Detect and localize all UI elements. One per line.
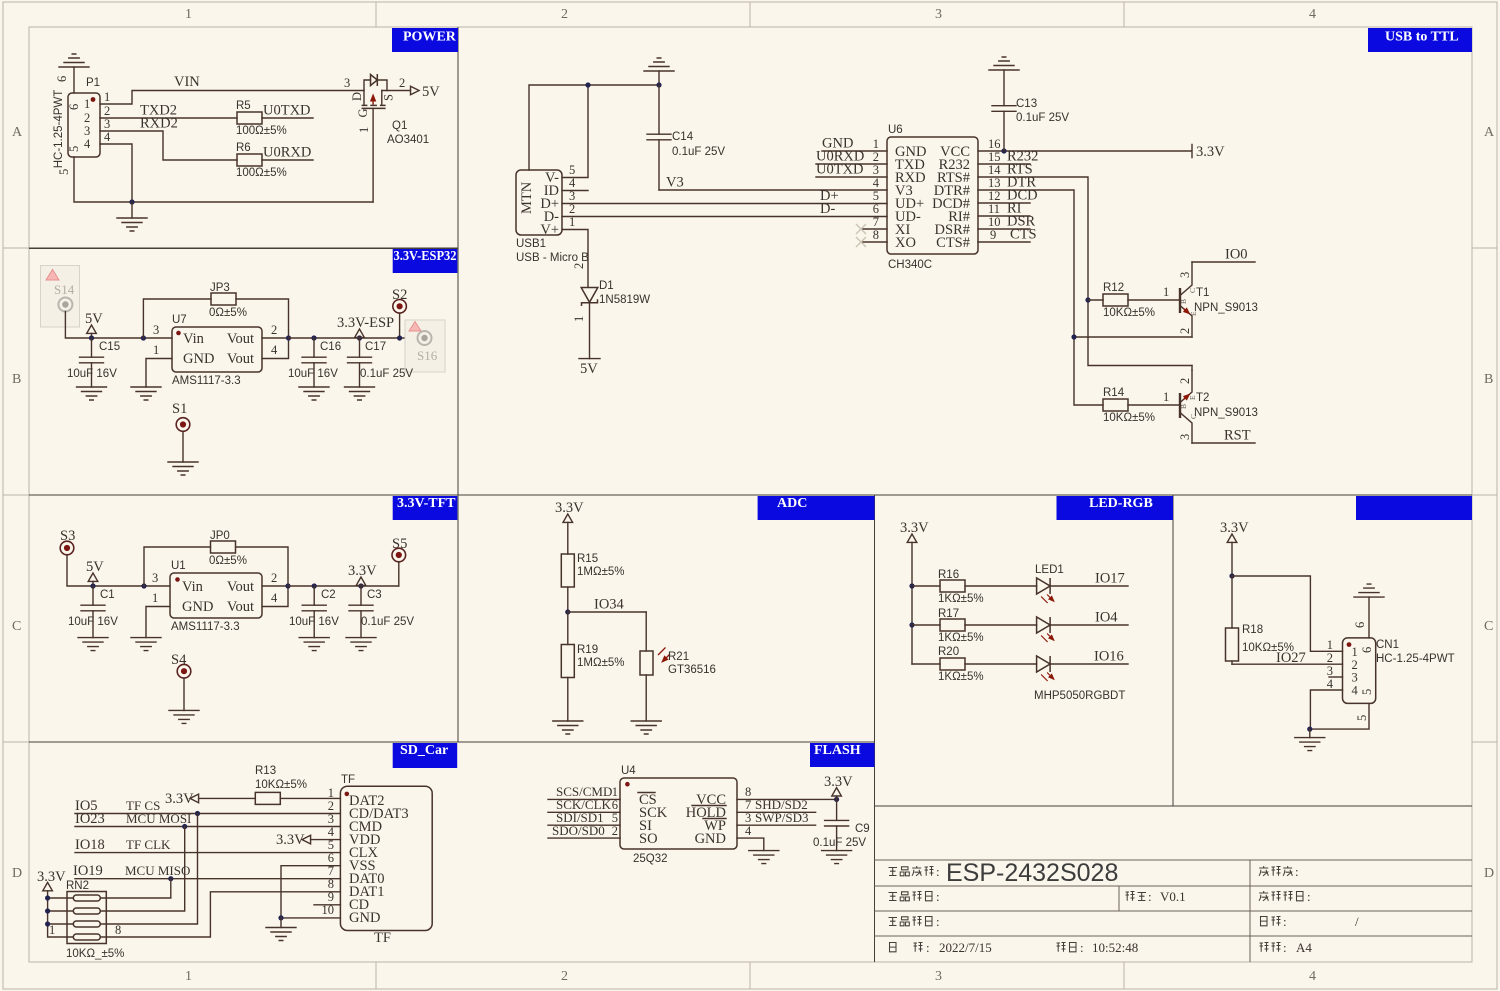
svg-text:T2: T2	[1196, 392, 1209, 404]
capacitor C17	[357, 335, 362, 340]
svg-text:S2: S2	[392, 287, 407, 303]
svg-text:3: 3	[152, 571, 158, 585]
svg-text:U1: U1	[171, 560, 186, 572]
svg-text:R19: R19	[577, 644, 598, 656]
svg-text:R16: R16	[938, 569, 959, 581]
svg-text:10KΩ_±5%: 10KΩ_±5%	[66, 948, 124, 960]
svg-text:6: 6	[55, 76, 69, 82]
svg-text:2: 2	[1178, 328, 1192, 334]
svg-text:U0TXD: U0TXD	[263, 103, 311, 119]
wire V+ down to diode	[562, 230, 588, 288]
capacitor C13	[1003, 111, 1005, 151]
svg-text:0.1uF 25V: 0.1uF 25V	[672, 146, 725, 158]
svg-text:SD_Car: SD_Car	[400, 743, 448, 758]
svg-text:2: 2	[572, 263, 586, 269]
svg-text:1: 1	[328, 786, 334, 800]
svg-text::: :	[936, 889, 940, 904]
capacitor C9	[836, 799, 838, 820]
capacitor C14	[658, 85, 660, 134]
svg-text:3.3V: 3.3V	[900, 520, 929, 536]
svg-text:4: 4	[271, 591, 278, 605]
wire pin1 to VIN	[100, 91, 363, 105]
wire node CTS	[978, 241, 1030, 243]
svg-text:10KΩ±5%: 10KΩ±5%	[1103, 307, 1155, 319]
svg-text:5V: 5V	[86, 559, 104, 575]
svg-text:1KΩ±5%: 1KΩ±5%	[938, 632, 984, 644]
svg-text:R6: R6	[236, 142, 251, 154]
svg-text:10KΩ±5%: 10KΩ±5%	[1103, 412, 1155, 424]
svg-text:V+: V+	[540, 222, 559, 238]
svg-text:Vout: Vout	[227, 331, 254, 347]
svg-text:1: 1	[1327, 638, 1333, 652]
wire node IO34	[568, 611, 646, 613]
pin9 CD stub	[314, 904, 340, 906]
wire 3.3V to CN1 pin1	[1232, 576, 1343, 651]
svg-text:5: 5	[57, 169, 71, 175]
svg-text:3.3V: 3.3V	[824, 774, 853, 790]
svg-text:1MΩ±5%: 1MΩ±5%	[577, 657, 625, 669]
frame column ticks	[376, 2, 1124, 989]
svg-text:IO23: IO23	[75, 811, 105, 827]
svg-text:1: 1	[185, 7, 192, 22]
svg-text:5: 5	[612, 811, 618, 825]
section title bars	[392, 28, 1472, 768]
transistor T1 NPN_S9013	[1179, 288, 1181, 313]
svg-text:Q1: Q1	[392, 120, 407, 132]
svg-text:B: B	[12, 372, 21, 387]
svg-text:1: 1	[153, 343, 159, 357]
svg-text:AMS1117-3.3: AMS1117-3.3	[172, 375, 241, 387]
wire node R232	[978, 163, 1030, 165]
wire pin6 stem	[73, 67, 75, 93]
resistor R15	[561, 554, 574, 587]
svg-text:3.3V: 3.3V	[348, 563, 377, 579]
svg-text:P1: P1	[86, 77, 100, 89]
svg-text:12: 12	[988, 189, 1001, 203]
svg-text:C15: C15	[99, 341, 120, 353]
svg-text:2: 2	[84, 111, 90, 125]
resistor R12	[1103, 294, 1128, 306]
svg-text:10:52:48: 10:52:48	[1092, 940, 1138, 955]
row3: product no / page	[889, 914, 940, 929]
wire GND pin4 to ground	[737, 838, 764, 851]
connector TF	[340, 786, 432, 930]
svg-text:CH340C: CH340C	[888, 259, 932, 271]
LED blue el	[1037, 656, 1054, 681]
svg-text:IO27: IO27	[1276, 650, 1306, 666]
wire VCC pin16 to 3.3V bar	[978, 145, 1192, 158]
svg-text::: :	[1295, 864, 1299, 879]
row2: model / version / file no	[889, 889, 940, 904]
svg-text:1: 1	[1352, 645, 1358, 659]
svg-text:3: 3	[84, 124, 90, 138]
wire node RI	[978, 215, 1030, 217]
resistor R17	[909, 622, 914, 627]
wire node SCS/CMD	[548, 798, 620, 800]
svg-text:13: 13	[988, 176, 1001, 190]
svg-text:3: 3	[873, 163, 879, 177]
svg-text:1KΩ±5%: 1KΩ±5%	[938, 593, 984, 605]
capacitor C3	[358, 583, 363, 588]
wire node SHD/SD2	[737, 811, 816, 813]
svg-text:1: 1	[873, 137, 879, 151]
svg-text:3: 3	[935, 969, 942, 984]
regulator U1 AMS1117-3.3	[170, 573, 262, 618]
svg-text:USB1: USB1	[516, 238, 546, 250]
svg-text:GND: GND	[695, 831, 726, 847]
svg-text:U4: U4	[621, 765, 636, 777]
row1: product name	[889, 864, 940, 879]
svg-text:6: 6	[1360, 647, 1374, 653]
svg-text:D: D	[1484, 866, 1494, 881]
node 5V out arrow	[411, 86, 420, 95]
wire pin5 V- up	[562, 85, 588, 178]
svg-text:U6: U6	[888, 124, 903, 136]
svg-text:0.1uF 25V: 0.1uF 25V	[360, 368, 413, 380]
svg-text:4: 4	[873, 176, 880, 190]
wire node RTS down	[978, 177, 1192, 366]
diode D1 1N5819W	[581, 288, 598, 307]
svg-text:3: 3	[1178, 434, 1192, 440]
svg-text:IO34: IO34	[594, 597, 625, 613]
svg-text:2: 2	[271, 323, 277, 337]
svg-text:JP3: JP3	[210, 282, 230, 294]
svg-text:S16: S16	[417, 348, 438, 363]
capacitor C16	[311, 335, 316, 340]
wire D-	[562, 216, 887, 218]
svg-text:IO4: IO4	[1095, 610, 1118, 626]
svg-text:G: G	[356, 108, 370, 117]
wire node IO5 / TF CS	[75, 813, 340, 815]
svg-text:4: 4	[1309, 7, 1316, 22]
svg-text:3: 3	[153, 323, 159, 337]
svg-text:3: 3	[1352, 671, 1358, 685]
svg-text:IO16: IO16	[1094, 649, 1124, 665]
svg-text:IO0: IO0	[1225, 247, 1248, 263]
svg-text::: :	[936, 914, 940, 929]
wire pin2 TXD2	[100, 117, 237, 119]
svg-text:1: 1	[612, 785, 618, 799]
svg-text:2: 2	[104, 104, 110, 118]
junction	[129, 199, 134, 204]
svg-text:3.3V: 3.3V	[276, 832, 305, 848]
svg-text:LED-RGB: LED-RGB	[1089, 496, 1153, 511]
connector CN1	[1343, 638, 1376, 704]
svg-text:10uF 16V: 10uF 16V	[67, 368, 117, 380]
capacitor C1	[92, 586, 94, 605]
svg-text:7: 7	[873, 215, 879, 229]
ground bottom	[131, 202, 133, 218]
svg-text:11: 11	[988, 202, 1000, 216]
svg-text:U0RXD: U0RXD	[263, 145, 311, 161]
svg-text:8: 8	[115, 923, 121, 937]
svg-text:C17: C17	[365, 341, 386, 353]
svg-text:GND: GND	[349, 910, 380, 926]
svg-text:4: 4	[1309, 969, 1316, 984]
wire node U0RXD	[262, 159, 313, 161]
svg-text:3: 3	[344, 76, 350, 90]
wire node DTR down	[978, 190, 1103, 405]
svg-text:8: 8	[745, 785, 751, 799]
svg-text:0Ω±5%: 0Ω±5%	[209, 555, 247, 567]
svg-text:Vin: Vin	[182, 579, 204, 595]
wire U7 outputs	[262, 338, 289, 359]
svg-text:2: 2	[612, 824, 618, 838]
svg-text:A: A	[1484, 125, 1495, 140]
ground above C13	[989, 57, 1019, 70]
svg-text:1: 1	[152, 591, 158, 605]
svg-text:HC-1.25-4PWT: HC-1.25-4PWT	[1376, 653, 1455, 665]
wire D+	[562, 203, 887, 205]
svg-text:1: 1	[104, 90, 110, 104]
svg-text:2: 2	[399, 76, 405, 90]
marker S14 overlay	[41, 266, 80, 328]
svg-text:4: 4	[745, 824, 752, 838]
svg-text:3: 3	[104, 117, 110, 131]
svg-text:1: 1	[49, 923, 55, 937]
svg-text:AMS1117-3.3: AMS1117-3.3	[171, 621, 240, 633]
svg-text:16: 16	[988, 137, 1001, 151]
IC U4 25Q32	[620, 778, 737, 849]
svg-text:Vout: Vout	[227, 351, 254, 367]
resistor R5	[237, 112, 262, 124]
svg-text:5: 5	[1355, 715, 1369, 721]
svg-text:2: 2	[561, 7, 568, 22]
svg-text:3.3V-ESP32: 3.3V-ESP32	[394, 249, 457, 264]
svg-text:XO: XO	[895, 235, 916, 251]
wire pin5 stem + bottom rail	[74, 157, 373, 202]
svg-text:GT36516: GT36516	[668, 664, 716, 676]
svg-text:S: S	[382, 94, 396, 101]
power bar 5V	[589, 303, 591, 359]
svg-text:FLASH: FLASH	[814, 743, 861, 758]
svg-text:1: 1	[84, 97, 90, 111]
wire pin3 RXD2	[100, 131, 237, 160]
wire VSS + GND to ground	[281, 866, 340, 918]
svg-text:/: /	[1355, 914, 1359, 929]
svg-text:25Q32: 25Q32	[633, 853, 668, 865]
svg-text:2: 2	[561, 969, 568, 984]
LED green el	[1037, 617, 1054, 642]
svg-text:3.3V: 3.3V	[1196, 144, 1225, 160]
svg-text:U0TXD: U0TXD	[816, 162, 864, 178]
connector USB1	[516, 170, 562, 235]
pin8 XO stub with nc cross	[861, 241, 887, 243]
svg-text::: :	[1307, 889, 1311, 904]
pin4 to ground	[1310, 690, 1342, 729]
svg-text:3.3V: 3.3V	[37, 869, 66, 885]
svg-text:JP0: JP0	[210, 530, 230, 542]
svg-text:4: 4	[1327, 677, 1334, 691]
svg-text:GND: GND	[182, 599, 213, 615]
svg-text:0.1uF 25V: 0.1uF 25V	[361, 616, 414, 628]
svg-text:MCU MOSI: MCU MOSI	[126, 811, 191, 826]
wire node V3 to U6 pin4	[659, 189, 887, 191]
ground	[77, 387, 107, 400]
svg-text:MTN: MTN	[519, 181, 535, 214]
svg-text:RN2: RN2	[66, 880, 89, 892]
svg-text:3: 3	[745, 811, 751, 825]
svg-text:R14: R14	[1103, 387, 1125, 399]
svg-text:MCU MISO: MCU MISO	[125, 863, 190, 878]
svg-text:6: 6	[67, 104, 81, 110]
svg-text:C9: C9	[855, 823, 870, 835]
ground top	[658, 71, 660, 85]
svg-text:RST: RST	[1224, 428, 1251, 444]
svg-text:0.1uF 25V: 0.1uF 25V	[1016, 112, 1069, 124]
svg-text:A: A	[12, 125, 23, 140]
svg-text:IO19: IO19	[73, 863, 103, 879]
pin5 wire bottom	[1310, 703, 1369, 729]
svg-text:C3: C3	[367, 589, 382, 601]
svg-text:100Ω±5%: 100Ω±5%	[236, 125, 287, 137]
svg-text:3.3V-TFT: 3.3V-TFT	[397, 496, 456, 511]
svg-text:3.3V: 3.3V	[1220, 520, 1249, 536]
svg-text:S14: S14	[54, 282, 75, 297]
svg-text:CN1: CN1	[1376, 639, 1399, 651]
marker S16 overlay	[405, 320, 445, 372]
svg-text:CTS#: CTS#	[936, 235, 970, 251]
resistor R19	[567, 612, 569, 645]
svg-text:10uF 16V: 10uF 16V	[289, 616, 339, 628]
connector P1	[68, 93, 100, 157]
svg-text:D: D	[350, 92, 364, 101]
wire T1 collector IO0	[1192, 261, 1255, 263]
wire GND pin1	[822, 150, 887, 152]
wire node SDO/SD0	[548, 837, 620, 839]
svg-text:1: 1	[1163, 285, 1169, 299]
svg-text:2022/7/15: 2022/7/15	[939, 940, 992, 955]
svg-text:4: 4	[1352, 684, 1359, 698]
capacitor C2	[312, 583, 317, 588]
svg-text:C2: C2	[321, 589, 336, 601]
wire T1 emitter to DTR	[1074, 336, 1192, 338]
svg-text:Vin: Vin	[183, 331, 205, 347]
svg-text:SDO/SD0: SDO/SD0	[552, 823, 605, 838]
jumper JP0	[141, 583, 146, 588]
wire node SCK/CLK	[548, 811, 620, 813]
svg-text:Vout: Vout	[227, 579, 254, 595]
svg-text:AO3401: AO3401	[387, 134, 429, 146]
svg-text::: :	[1283, 914, 1287, 929]
svg-text:1N5819W: 1N5819W	[599, 294, 650, 306]
svg-text:S1: S1	[172, 401, 187, 417]
svg-text:SO: SO	[639, 831, 658, 847]
svg-text::: :	[926, 940, 930, 955]
svg-text:1: 1	[185, 969, 192, 984]
wire node IO23 / MCU MOSI	[75, 826, 340, 828]
wire node DCD	[978, 202, 1030, 204]
svg-text:9: 9	[990, 228, 996, 242]
svg-text:NPN_S9013: NPN_S9013	[1194, 407, 1258, 419]
svg-text:U7: U7	[172, 314, 187, 326]
svg-text:C: C	[1484, 619, 1493, 634]
svg-text::: :	[936, 864, 940, 879]
svg-text:4: 4	[271, 343, 278, 357]
svg-text:5: 5	[67, 146, 81, 152]
svg-text:6: 6	[873, 202, 879, 216]
wire DAT1 to RN2	[100, 892, 340, 937]
svg-text:TF: TF	[341, 774, 355, 786]
wire node DSR	[978, 228, 1030, 230]
svg-text:RXD2: RXD2	[140, 116, 178, 132]
wire node SWP/SD3	[737, 824, 816, 826]
wire T2 emitter RST	[1192, 442, 1255, 444]
row4: date / time / paper	[890, 940, 992, 955]
svg-text:2: 2	[873, 150, 879, 164]
svg-text:R15: R15	[577, 553, 598, 565]
svg-text:VIN: VIN	[174, 74, 200, 90]
svg-text:5V: 5V	[580, 361, 598, 377]
svg-text:10KΩ±5%: 10KΩ±5%	[255, 779, 307, 791]
svg-text:8: 8	[873, 228, 879, 242]
ground (P1 pin6, flipped bars above)	[59, 54, 89, 67]
svg-text:1: 1	[572, 316, 586, 322]
resistor R18	[1231, 576, 1233, 628]
transistor Q1 AO3401	[364, 80, 387, 91]
wire U0RXD pin2	[816, 163, 887, 165]
wire VCC to 3.3V	[737, 798, 837, 800]
photoresistor R21 GT36516	[645, 612, 647, 651]
resistor R13	[255, 792, 280, 804]
svg-text:D1: D1	[599, 280, 614, 292]
svg-text:D-: D-	[820, 201, 835, 217]
svg-text:5V: 5V	[85, 311, 103, 327]
svg-text:3: 3	[1178, 272, 1192, 278]
wire RN2 r3 to TF CS	[100, 814, 197, 925]
svg-text:5: 5	[1360, 689, 1374, 695]
svg-text:14: 14	[988, 163, 1001, 177]
svg-text:Vout: Vout	[227, 599, 254, 615]
marker S16 overlay circle	[418, 331, 432, 345]
svg-text:5V: 5V	[422, 84, 440, 100]
svg-text:2: 2	[1327, 651, 1333, 665]
svg-text:3.3V-ESP: 3.3V-ESP	[337, 315, 394, 331]
wire U0TXD pin3	[816, 176, 887, 178]
svg-text:6: 6	[1353, 622, 1367, 628]
svg-text:10uF 16V: 10uF 16V	[68, 616, 118, 628]
svg-text:B: B	[1484, 372, 1493, 387]
svg-text:USB to TTL: USB to TTL	[1385, 30, 1459, 45]
wire pin4 ID stub	[562, 190, 588, 192]
svg-text:B: B	[1179, 404, 1188, 409]
svg-text:TF: TF	[374, 930, 391, 946]
svg-text:1: 1	[1163, 390, 1169, 404]
pin3 stub	[1329, 676, 1343, 678]
svg-text:100Ω±5%: 100Ω±5%	[236, 167, 287, 179]
jumper JP3	[141, 335, 146, 340]
svg-text:R17: R17	[938, 608, 959, 620]
svg-text:1: 1	[357, 127, 371, 133]
wire U1 GND to ground	[146, 607, 170, 638]
wire S14 to rail	[65, 312, 172, 339]
resistor R20	[912, 663, 1037, 665]
wire Q1 source to 5V	[382, 90, 411, 92]
section divider lines	[29, 247, 458, 249]
wire RN2 r1 to MISO	[100, 879, 170, 898]
svg-text:D: D	[12, 866, 22, 881]
capacitor C15	[91, 338, 93, 357]
svg-text:15: 15	[988, 150, 1001, 164]
svg-text:R5: R5	[236, 100, 251, 112]
LED LED1 (red el)	[1037, 578, 1054, 603]
svg-text:C: C	[12, 619, 21, 634]
svg-text:ADC: ADC	[777, 496, 807, 511]
svg-text::: :	[1283, 940, 1287, 955]
svg-text:R21: R21	[668, 651, 689, 663]
svg-text:C1: C1	[100, 589, 115, 601]
svg-text:R12: R12	[1103, 282, 1124, 294]
